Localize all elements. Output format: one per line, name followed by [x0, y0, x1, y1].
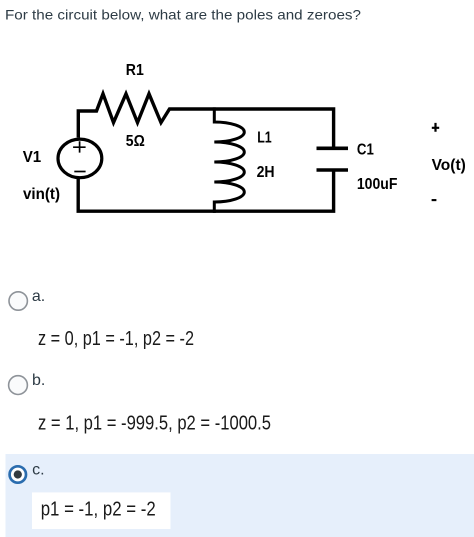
capacitor C1 bottom plate — [317, 168, 349, 172]
wire: source top lead, resistor zigzag R1 body, top wire, right drop to capacitor — [78, 94, 333, 149]
svg-text:vin(t): vin(t) — [23, 186, 60, 203]
svg-text:V1: V1 — [23, 149, 42, 166]
option c selected highlight box — [6, 454, 474, 537]
option c radio button selected — [10, 466, 26, 482]
svg-text:z = 1, p1 = -999.5, p2 = -1000: z = 1, p1 = -999.5, p2 = -1000.5 — [38, 412, 271, 434]
svg-text:L1: L1 — [257, 130, 272, 147]
svg-text:Vo(t): Vo(t) — [432, 157, 466, 174]
svg-text:For the circuit below, what ar: For the circuit below, what are the pole… — [5, 6, 361, 22]
svg-text:2H: 2H — [257, 164, 275, 181]
svg-text:p1 = -1, p2 = -2: p1 = -1, p2 = -2 — [41, 499, 156, 521]
svg-text:100uF: 100uF — [357, 176, 398, 193]
voltage source V1 circle — [58, 139, 102, 178]
svg-text:C1: C1 — [357, 142, 374, 159]
output plus terminal — [432, 123, 439, 132]
option a radio button — [9, 292, 27, 310]
svg-text:R1: R1 — [126, 62, 144, 79]
voltage source plus sign — [73, 141, 86, 152]
svg-text:z = 0, p1 = -1, p2 = -2: z = 0, p1 = -1, p2 = -2 — [38, 328, 194, 350]
capacitor C1 top plate — [317, 147, 349, 151]
voltage source minus sign — [74, 171, 85, 173]
option c answer white box — [32, 492, 171, 529]
wire: source bottom lead and bottom wire to capacitor — [78, 170, 333, 211]
svg-text:c.: c. — [32, 462, 44, 479]
option b radio button — [9, 376, 28, 395]
svg-text:b.: b. — [32, 372, 45, 389]
output minus terminal — [432, 199, 437, 201]
svg-text:a.: a. — [32, 288, 45, 305]
svg-text:5Ω: 5Ω — [126, 133, 145, 150]
inductor L1 coil — [214, 107, 244, 212]
